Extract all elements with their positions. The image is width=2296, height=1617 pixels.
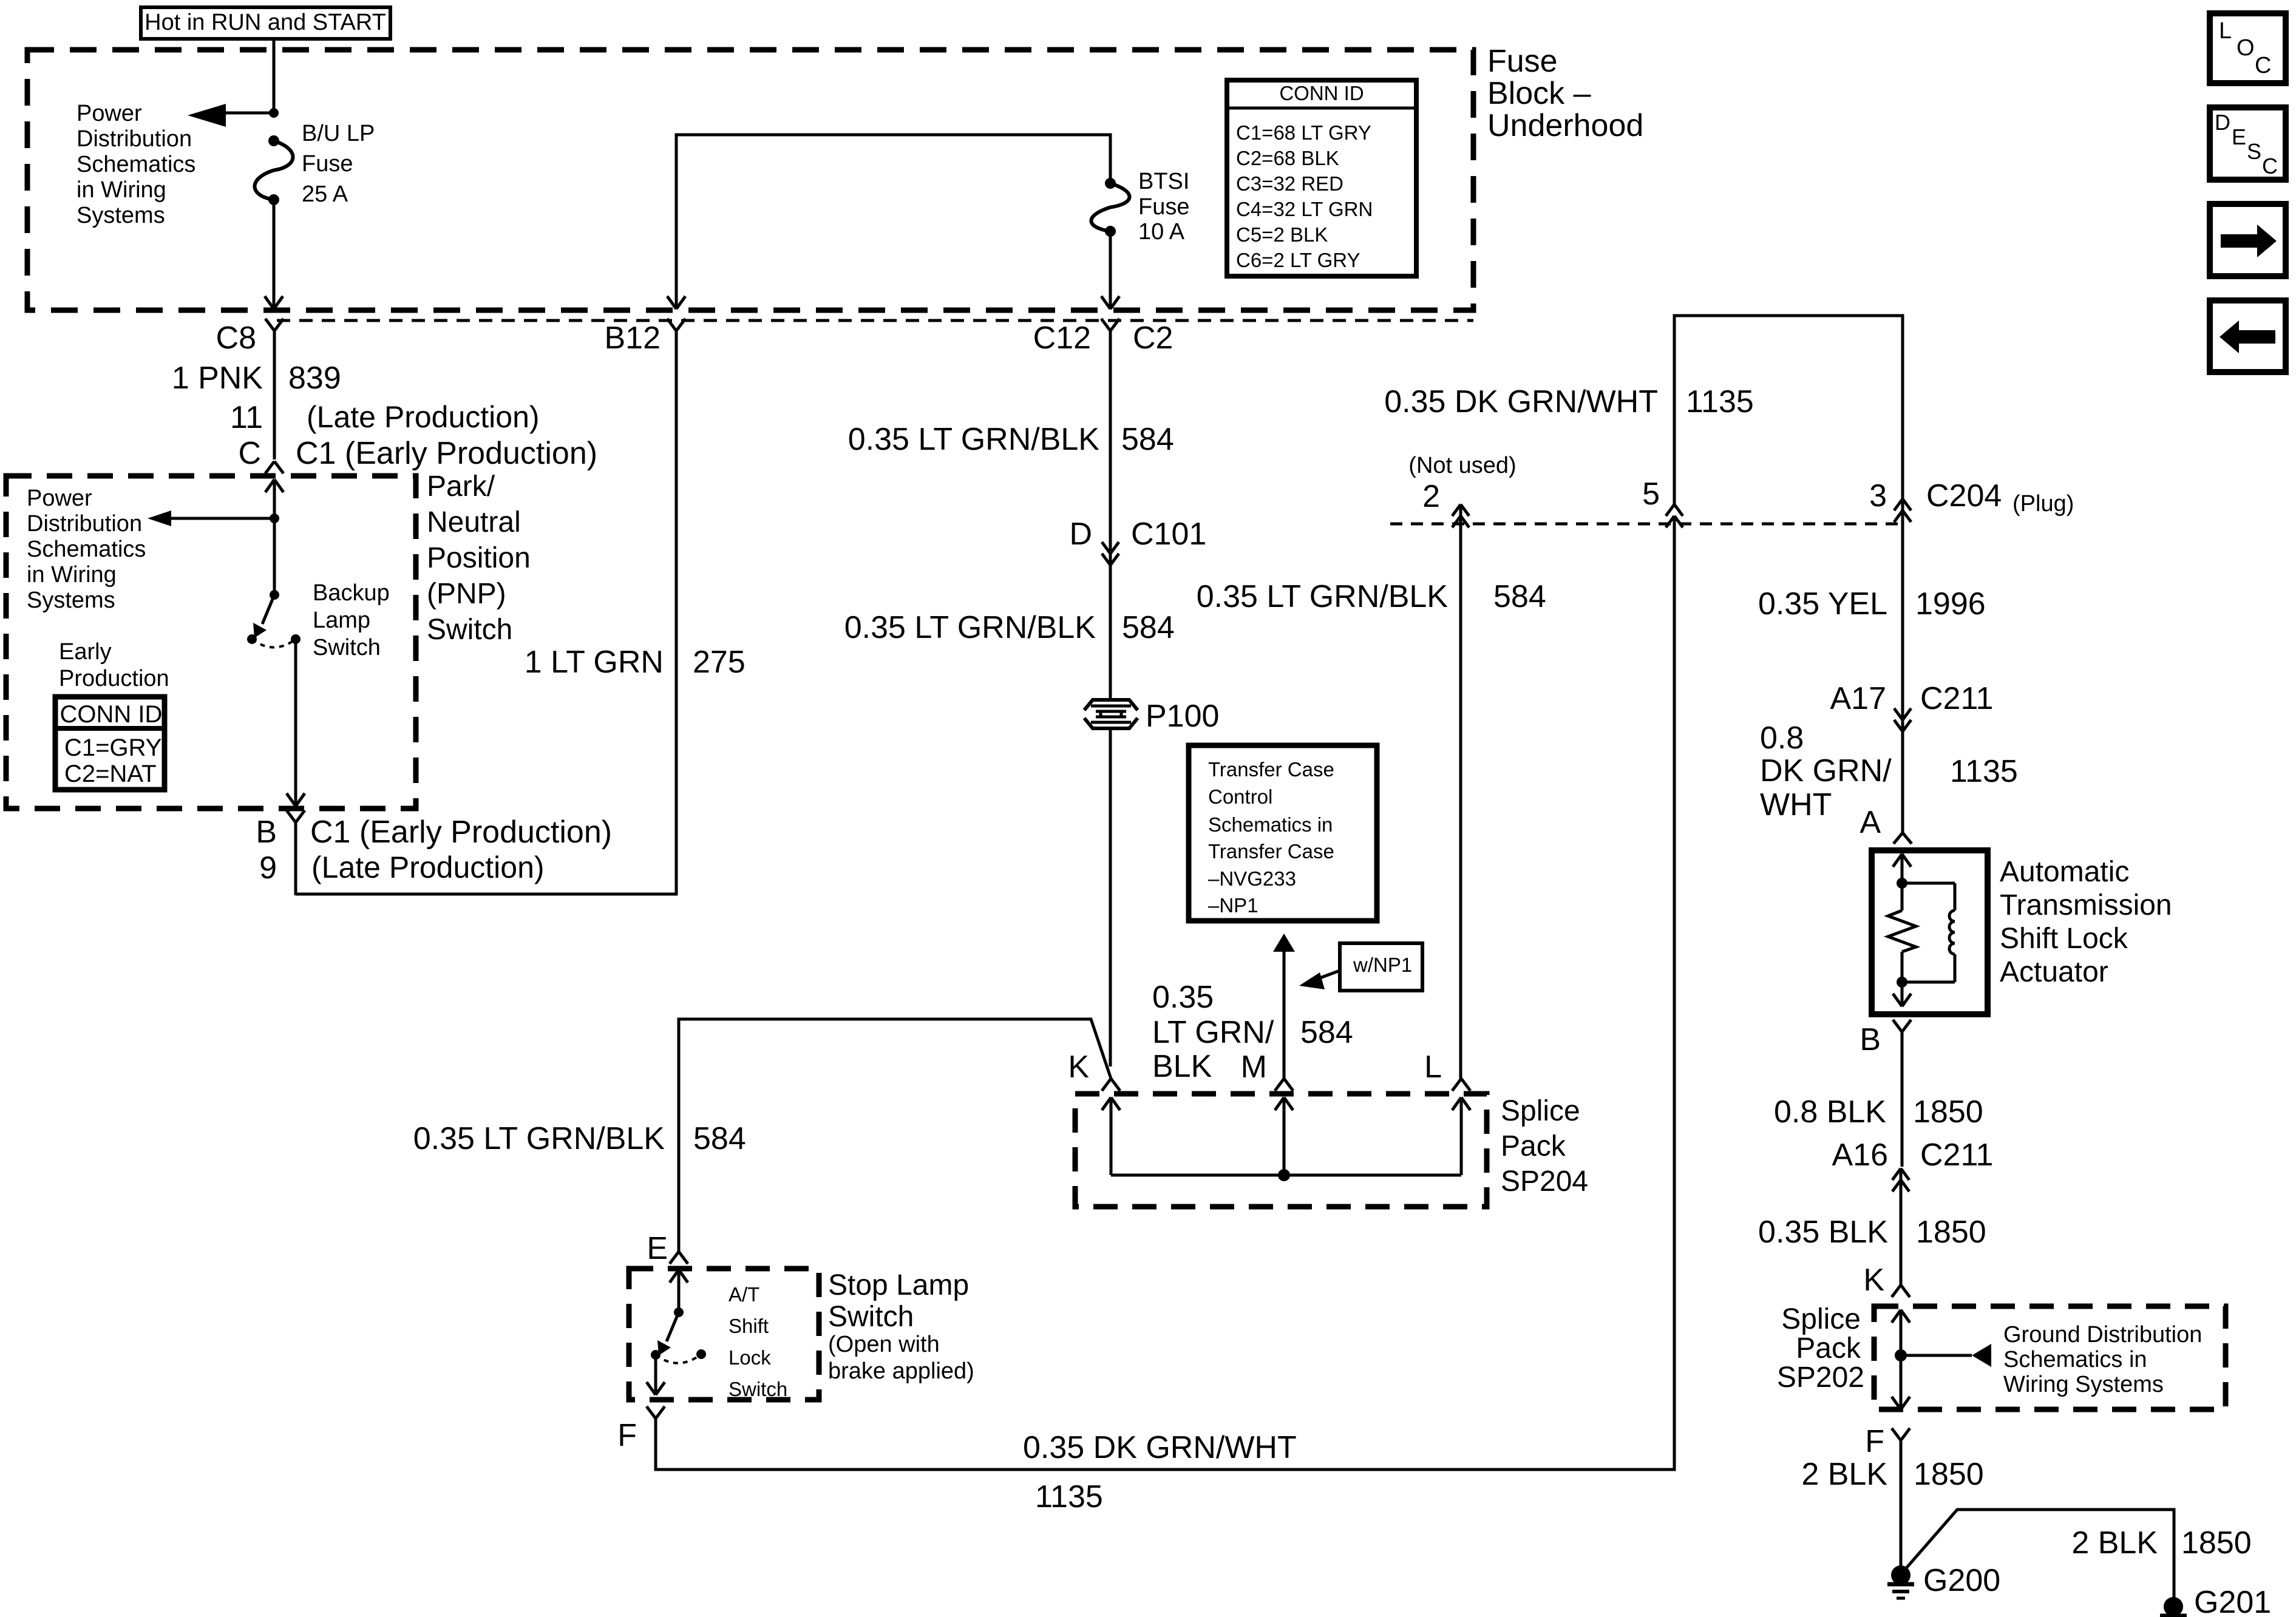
svg-text:3: 3 <box>1869 478 1887 514</box>
svg-text:G201: G201 <box>2194 1585 2271 1617</box>
label: Early Production <box>59 639 169 691</box>
wire: pin F to C204 pin 5 (ckt 1135) <box>656 516 1674 1470</box>
label: 0.35 LT GRN/BLK 584 (C101 to P100) <box>844 610 1175 645</box>
svg-text:C12: C12 <box>1033 320 1091 356</box>
svg-text:A17: A17 <box>1830 681 1886 716</box>
label: 0.35 YEL 1996 <box>1758 586 1986 622</box>
label: C C1 (Early Production) <box>238 436 597 471</box>
connector pin C12/C2 (chevron) <box>1101 319 1119 541</box>
svg-text:C1=68 LT GRY: C1=68 LT GRY <box>1236 121 1371 144</box>
junction dot in PNP switch <box>270 514 279 523</box>
svg-text:C1 (Early Production): C1 (Early Production) <box>296 436 597 471</box>
svg-text:(Open with: (Open with <box>828 1332 940 1357</box>
label: M (SP204) <box>1241 1049 1267 1085</box>
svg-text:Power: Power <box>27 486 92 511</box>
label: 0.8 DK GRN/ WHT 1135 <box>1760 720 2018 822</box>
label: 5 <box>1642 476 1660 512</box>
nav icon: back arrow <box>2210 300 2286 372</box>
svg-text:in Wiring: in Wiring <box>76 177 166 203</box>
wire: branch to G201 <box>1904 1510 2174 1602</box>
label: Park/Neutral Position (PNP) Switch <box>427 470 531 646</box>
CONN ID table (early production PNP) <box>55 697 165 790</box>
svg-text:C1 (Early Production): C1 (Early Production) <box>310 815 612 850</box>
transfer case control reference box <box>1189 745 1377 921</box>
svg-text:Lamp: Lamp <box>313 608 370 633</box>
svg-text:M: M <box>1241 1049 1267 1085</box>
label: C8 <box>216 320 256 356</box>
label: Fuse Block - Underhood <box>1487 44 1643 143</box>
svg-text:275: 275 <box>693 645 746 680</box>
svg-text:SP202: SP202 <box>1777 1361 1864 1394</box>
label: 9 / (Late Production) <box>259 850 544 886</box>
svg-text:C1=GRY: C1=GRY <box>64 734 161 761</box>
svg-text:D: D <box>1069 517 1092 552</box>
label: B/U LP Fuse 25 A <box>302 121 375 207</box>
svg-text:584: 584 <box>1121 422 1174 457</box>
connector pin B12 (chevron) <box>667 319 685 895</box>
label: B / C1 (Early Production) <box>256 815 612 850</box>
power feed box: Hot in RUN and START <box>141 7 390 39</box>
svg-text:2: 2 <box>1422 479 1440 514</box>
SP204 pin K (chevron above box) <box>1102 1079 1120 1091</box>
label: 1 PNK 839 <box>172 361 341 396</box>
connector pin E (chevron above stop lamp switch) <box>670 1252 688 1264</box>
label: 2 and (Not used) <box>1408 453 1516 514</box>
svg-text:11: 11 <box>230 400 263 435</box>
svg-text:E: E <box>647 1231 668 1266</box>
svg-text:O: O <box>2237 35 2255 61</box>
svg-text:1135: 1135 <box>1686 384 1754 419</box>
wire branch: B12 feed to BTSI fuse <box>667 135 1110 309</box>
svg-text:839: 839 <box>288 361 341 396</box>
svg-text:Underhood: Underhood <box>1487 108 1643 143</box>
wire: stop lamp switch pin E run to SP204 pin K <box>679 1019 1111 1252</box>
nav icon: DESC <box>2210 107 2286 180</box>
svg-text:brake applied): brake applied) <box>828 1358 974 1384</box>
svg-text:Distribution: Distribution <box>76 126 192 152</box>
connector pin B below PNP switch (chevron) <box>287 810 305 895</box>
svg-text:1996: 1996 <box>1915 586 1986 622</box>
svg-text:1850: 1850 <box>1913 1094 1983 1130</box>
svg-text:B/U LP: B/U LP <box>302 121 375 146</box>
svg-text:0.35 YEL: 0.35 YEL <box>1758 586 1887 622</box>
label: 0.35 LT GRN/ BLK 584 (M wire) <box>1152 980 1353 1084</box>
svg-text:Early: Early <box>59 639 112 665</box>
svg-text:K: K <box>1863 1263 1884 1298</box>
svg-text:584: 584 <box>1122 610 1175 645</box>
svg-text:Schematics in: Schematics in <box>2003 1347 2147 1372</box>
nav icon: LOC <box>2210 13 2286 83</box>
SP204 pin M (chevron above box) <box>1275 1079 1293 1091</box>
svg-text:WHT: WHT <box>1760 787 1832 822</box>
svg-text:A: A <box>1860 805 1881 840</box>
svg-text:C204: C204 <box>1926 478 2002 514</box>
note: Power Distribution Schematics in Wiring Systems (fuse block) <box>76 101 195 228</box>
svg-text:0.35 LT GRN/BLK: 0.35 LT GRN/BLK <box>1197 579 1449 614</box>
w/NP1 callout box <box>1299 943 1422 991</box>
connector pin C8 (chevron) <box>265 319 284 459</box>
svg-text:LT GRN/: LT GRN/ <box>1152 1015 1274 1050</box>
wire: backup lamp switch to pin B <box>287 639 305 806</box>
wire: Hot in RUN/START down to junction <box>273 39 276 113</box>
svg-text:1135: 1135 <box>1950 754 2018 789</box>
label: A16 / C211 <box>1832 1137 1993 1173</box>
svg-text:10 A: 10 A <box>1138 219 1185 245</box>
wire arrow: splice SP204 M up to transfer case (ckt 584) <box>1273 934 1295 1079</box>
svg-text:Block –: Block – <box>1487 76 1591 111</box>
svg-text:2 BLK: 2 BLK <box>2071 1525 2158 1561</box>
svg-text:(Late Production): (Late Production) <box>311 850 545 884</box>
note: Power Distribution Schematics in Wiring Systems (PNP) <box>27 486 146 613</box>
svg-text:1850: 1850 <box>1914 1457 1984 1492</box>
svg-text:F: F <box>1865 1424 1884 1459</box>
label: 11 (Late Production) <box>230 400 540 435</box>
svg-text:C: C <box>238 436 261 471</box>
svg-text:1 PNK: 1 PNK <box>172 361 263 396</box>
svg-text:Switch: Switch <box>427 614 512 646</box>
connector pin A of shift lock actuator (chevron) <box>1894 833 1912 844</box>
svg-text:Actuator: Actuator <box>2000 956 2108 988</box>
svg-text:K: K <box>1068 1049 1089 1085</box>
fuse block underhood dashed box <box>27 50 1473 310</box>
label: 0.35 DK GRN/WHT 1135 (pin 5 riser) <box>1384 384 1754 419</box>
label: A17 / C211 <box>1830 681 1993 716</box>
svg-text:D: D <box>2215 110 2230 135</box>
svg-text:Automatic: Automatic <box>2000 856 2129 888</box>
label: L (SP204) <box>1424 1049 1442 1085</box>
svg-text:0.35 LT GRN/BLK: 0.35 LT GRN/BLK <box>848 422 1100 457</box>
svg-text:5: 5 <box>1642 476 1660 512</box>
svg-text:C: C <box>2255 53 2271 78</box>
svg-text:Distribution: Distribution <box>27 511 142 537</box>
C204 pin 2 (not used) <box>1452 504 1469 1079</box>
svg-text:0.8 BLK: 0.8 BLK <box>1774 1094 1886 1130</box>
label: 0.35 LT GRN/BLK 584 (E wire) <box>413 1121 746 1156</box>
svg-text:BTSI: BTSI <box>1138 169 1189 194</box>
fuse F: B/U LP 25 A <box>254 135 293 205</box>
svg-text:C8: C8 <box>216 320 256 356</box>
svg-text:E: E <box>2232 124 2246 149</box>
svg-text:Shift Lock: Shift Lock <box>2000 923 2128 955</box>
svg-text:C211: C211 <box>1920 1137 1993 1173</box>
svg-text:Schematics: Schematics <box>76 152 195 177</box>
annotation arrow to Power Distribution Schematics (PNP) <box>148 510 274 526</box>
svg-text:Schematics: Schematics <box>27 537 146 562</box>
svg-text:(PNP): (PNP) <box>427 578 506 610</box>
svg-text:F: F <box>617 1418 637 1453</box>
wire: C204 pin 5 top run to pin 3 <box>1674 316 1903 504</box>
connector C211 pin A17 (pass-through, down) <box>1894 697 1911 833</box>
svg-text:C2: C2 <box>1133 320 1173 356</box>
splice pack SP202 dashed box <box>1874 1306 2226 1409</box>
svg-text:1850: 1850 <box>1916 1215 1986 1250</box>
connector pin C/C1 entering PNP switch (chevron above box) <box>265 461 284 473</box>
svg-text:Park/: Park/ <box>427 470 495 503</box>
PNP switch dashed box <box>6 476 416 808</box>
connector pin K above SP202 (chevron) <box>1892 1285 1910 1297</box>
connector C211 pin A16 (pass-through, up) <box>1892 1168 1909 1285</box>
svg-text:B12: B12 <box>604 320 661 356</box>
svg-text:9: 9 <box>259 850 277 886</box>
svg-text:Lock: Lock <box>729 1346 771 1369</box>
svg-text:Transmission: Transmission <box>2000 889 2172 921</box>
svg-text:Backup: Backup <box>313 580 390 606</box>
label: Automatic Transmission Shift Lock Actuator <box>2000 856 2172 988</box>
svg-text:0.35 DK GRN/WHT: 0.35 DK GRN/WHT <box>1023 1430 1297 1465</box>
splice pack SP204 dashed box <box>1075 1094 1487 1207</box>
svg-text:1 LT GRN: 1 LT GRN <box>525 645 664 680</box>
svg-text:BLK: BLK <box>1152 1049 1212 1084</box>
label: F (stop lamp switch) <box>617 1418 637 1453</box>
label: Backup Lamp Switch <box>313 580 390 660</box>
svg-text:C3=32 RED: C3=32 RED <box>1236 172 1343 195</box>
ground G200 <box>1887 1565 1914 1598</box>
grommet P100 <box>1084 700 1138 1066</box>
label: 3 / C204 (Plug) <box>1869 478 2074 517</box>
svg-text:Position: Position <box>427 542 531 574</box>
label: 2 BLK 1850 (G200) <box>1801 1457 1983 1492</box>
svg-text:Fuse: Fuse <box>1487 44 1558 79</box>
svg-text:–NVG233: –NVG233 <box>1208 867 1296 890</box>
svg-text:Wiring Systems: Wiring Systems <box>2003 1372 2164 1397</box>
svg-text:CONN ID: CONN ID <box>60 701 163 728</box>
label: Stop Lamp Switch (Open with brake applied) <box>828 1269 974 1384</box>
svg-text:C4=32 LT GRN: C4=32 LT GRN <box>1236 198 1373 220</box>
connector pin F below stop lamp switch (chevron) <box>647 1406 665 1419</box>
svg-text:25 A: 25 A <box>302 181 348 207</box>
C204 connector dashed line <box>1390 523 1903 526</box>
svg-text:Neutral: Neutral <box>427 506 521 538</box>
svg-text:0.8: 0.8 <box>1760 720 1804 756</box>
svg-text:Stop Lamp: Stop Lamp <box>828 1269 969 1301</box>
svg-text:584: 584 <box>1300 1015 1353 1050</box>
wire: B/U LP fuse to connector C8 <box>265 200 283 309</box>
svg-text:w/NP1: w/NP1 <box>1353 954 1412 976</box>
connector pin B below actuator (chevron) <box>1893 1020 1911 1167</box>
svg-text:0.35 LT GRN/BLK: 0.35 LT GRN/BLK <box>844 610 1096 645</box>
svg-text:Fuse: Fuse <box>302 151 353 177</box>
svg-text:Transfer Case: Transfer Case <box>1208 758 1334 781</box>
label: 0.35 LT GRN/BLK 584 (pin2 to L) <box>1197 579 1546 614</box>
svg-text:SP204: SP204 <box>1501 1165 1588 1198</box>
svg-text:A16: A16 <box>1832 1137 1888 1173</box>
label: Splice Pack SP204 <box>1501 1095 1588 1198</box>
svg-text:Splice: Splice <box>1781 1303 1861 1335</box>
svg-text:(Plug): (Plug) <box>2012 491 2074 517</box>
automatic transmission shift lock actuator box <box>1872 850 1988 1014</box>
label: F (SP202) <box>1865 1424 1884 1459</box>
svg-text:2 BLK: 2 BLK <box>1801 1457 1887 1492</box>
svg-text:CONN ID: CONN ID <box>1279 82 1364 104</box>
label: B (actuator) <box>1860 1022 1881 1057</box>
svg-text:0.35 LT GRN/BLK: 0.35 LT GRN/BLK <box>413 1121 665 1156</box>
fuse F: BTSI 10 A <box>1091 178 1129 237</box>
connector C101 pin D (pass-through, down) <box>1102 541 1119 700</box>
label: E <box>647 1231 668 1266</box>
label: Splice Pack SP202 <box>1777 1303 1864 1394</box>
arrow into PNP switch <box>265 480 284 595</box>
svg-text:–NP1: –NP1 <box>1208 894 1258 917</box>
label: D / C101 <box>1069 517 1206 552</box>
fuse block connector face (thin dashed line) <box>277 319 1473 322</box>
svg-text:Systems: Systems <box>76 203 165 228</box>
label: K (SP204) <box>1068 1049 1089 1085</box>
annotation arrow to Ground Distribution Schematics <box>1901 1344 1991 1367</box>
svg-text:(Not used): (Not used) <box>1408 453 1516 478</box>
svg-text:Control: Control <box>1208 785 1272 808</box>
label: B12 <box>604 320 661 356</box>
svg-text:A/T: A/T <box>729 1283 759 1306</box>
svg-text:Switch: Switch <box>828 1301 914 1333</box>
label: K (SP202) <box>1863 1263 1884 1298</box>
svg-text:1135: 1135 <box>1035 1479 1103 1514</box>
svg-text:L: L <box>1424 1049 1442 1085</box>
svg-text:C5=2 BLK: C5=2 BLK <box>1236 223 1328 246</box>
backup lamp switch (pivot, lever, contacts) <box>247 590 301 648</box>
CONN ID table (fuse block) <box>1227 80 1416 276</box>
connector pin F below SP202 (chevron) <box>1892 1428 1910 1566</box>
svg-text:Splice: Splice <box>1501 1095 1580 1127</box>
svg-text:0.35: 0.35 <box>1152 980 1214 1015</box>
svg-text:Power: Power <box>76 101 142 126</box>
label: C12 C2 <box>1033 320 1173 356</box>
svg-text:Switch: Switch <box>313 635 381 660</box>
svg-text:Schematics in: Schematics in <box>1208 813 1333 836</box>
label: G200 <box>1923 1563 2000 1598</box>
label: 0.35 BLK 1850 <box>1758 1215 1986 1250</box>
svg-text:Pack: Pack <box>1501 1130 1566 1162</box>
C204 pin 3 <box>1894 499 1911 708</box>
label: 1 LT GRN 275 <box>525 645 746 680</box>
wire: BTSI fuse to connector C12 <box>1101 231 1119 309</box>
SP202 internal splice <box>1892 1310 1910 1409</box>
label: 0.35 LT GRN/BLK 584 (C2 to C101) <box>848 422 1174 457</box>
label: 0.35 DK GRN/WHT 1135 (bottom run) <box>1023 1430 1297 1514</box>
svg-text:Switch: Switch <box>729 1378 787 1400</box>
label: P100 <box>1146 699 1219 734</box>
svg-text:584: 584 <box>693 1121 746 1156</box>
ground G201 <box>2160 1597 2187 1616</box>
nav icon: forward arrow <box>2210 204 2286 276</box>
svg-text:C101: C101 <box>1131 517 1206 552</box>
svg-text:Production: Production <box>59 666 169 691</box>
svg-text:Pack: Pack <box>1796 1332 1861 1364</box>
svg-text:Shift: Shift <box>729 1315 769 1337</box>
actuator internals: resistor and coil in parallel <box>1888 854 1955 1006</box>
svg-text:DK GRN/: DK GRN/ <box>1760 753 1892 788</box>
label: A <box>1860 805 1881 840</box>
svg-text:(Late Production): (Late Production) <box>307 400 540 434</box>
svg-text:B: B <box>256 815 277 850</box>
svg-text:Fuse: Fuse <box>1138 194 1189 220</box>
label: 0.8 BLK 1850 <box>1774 1094 1983 1130</box>
note: Ground Distribution Schematics in Wiring Systems <box>2003 1322 2202 1397</box>
svg-text:G200: G200 <box>1923 1563 2000 1598</box>
svg-text:584: 584 <box>1493 579 1546 614</box>
svg-text:P100: P100 <box>1146 699 1219 734</box>
svg-text:0.35 BLK: 0.35 BLK <box>1758 1215 1888 1250</box>
label: 2 BLK 1850 (G201) <box>2071 1525 2251 1561</box>
svg-text:Systems: Systems <box>27 588 115 613</box>
svg-text:C6=2 LT GRY: C6=2 LT GRY <box>1236 249 1360 271</box>
stop lamp switch dashed box <box>629 1269 819 1400</box>
annotation arrow to Power Distribution Schematics (fuse block) <box>188 104 274 127</box>
svg-text:S: S <box>2247 139 2261 164</box>
wire: pin B to B12 riser <box>296 893 678 896</box>
svg-text:Transfer Case: Transfer Case <box>1208 840 1334 863</box>
svg-text:Ground Distribution: Ground Distribution <box>2003 1322 2202 1347</box>
label: A/T Shift Lock Switch <box>729 1283 787 1400</box>
svg-text:B: B <box>1860 1022 1881 1057</box>
label: BTSI Fuse 10 A <box>1138 169 1189 245</box>
svg-text:C: C <box>2262 154 2278 178</box>
svg-text:Hot in RUN and START: Hot in RUN and START <box>144 10 386 35</box>
svg-text:C2=68 BLK: C2=68 BLK <box>1236 147 1339 169</box>
SP204 internal splice bus <box>1102 1097 1470 1181</box>
junction dot at B/U LP fuse feed <box>269 108 279 118</box>
svg-text:C2=NAT: C2=NAT <box>64 761 157 787</box>
svg-text:in Wiring: in Wiring <box>27 562 117 588</box>
SP204 pin L (chevron above box) <box>1452 1079 1470 1091</box>
svg-text:C211: C211 <box>1920 681 1993 716</box>
svg-text:0.35 DK GRN/WHT: 0.35 DK GRN/WHT <box>1384 384 1658 419</box>
C204 pin 5 <box>1666 504 1683 527</box>
svg-text:L: L <box>2219 18 2232 44</box>
A/T shift lock switch (pivot, lever, contacts) <box>647 1270 706 1395</box>
label: G201 <box>2194 1585 2271 1617</box>
svg-text:1850: 1850 <box>2181 1525 2252 1561</box>
